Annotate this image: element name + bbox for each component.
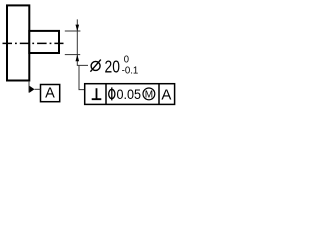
svg-text:A: A — [161, 86, 171, 103]
datum triangle — [29, 86, 34, 93]
leader to feature control frame — [79, 65, 85, 89]
svg-text:0.05: 0.05 — [117, 87, 141, 103]
extension line top — [65, 30, 81, 32]
perpendicularity symbol — [92, 88, 102, 99]
phi symbol — [109, 87, 115, 100]
arrowhead bottom — [76, 55, 80, 62]
diameter symbol — [90, 60, 100, 72]
flange outline — [7, 5, 29, 80]
svg-text:A: A — [45, 86, 55, 102]
svg-text:-0.1: -0.1 — [122, 65, 139, 76]
svg-text:0: 0 — [124, 54, 130, 66]
svg-text:20: 20 — [105, 57, 120, 77]
arrowhead top — [76, 25, 80, 32]
centerline — [3, 42, 64, 44]
frame divider 1 — [105, 84, 107, 105]
datum feature box — [41, 85, 60, 102]
frame divider 2 — [158, 84, 160, 105]
dimension line with leader — [77, 19, 88, 65]
datum extension line — [28, 82, 30, 93]
cylinder outline — [29, 31, 59, 53]
material condition modifier M circle — [143, 88, 155, 100]
datum leader — [35, 88, 41, 90]
extension line bottom — [65, 54, 80, 56]
svg-text:M: M — [145, 90, 153, 101]
feature control frame — [85, 84, 175, 105]
